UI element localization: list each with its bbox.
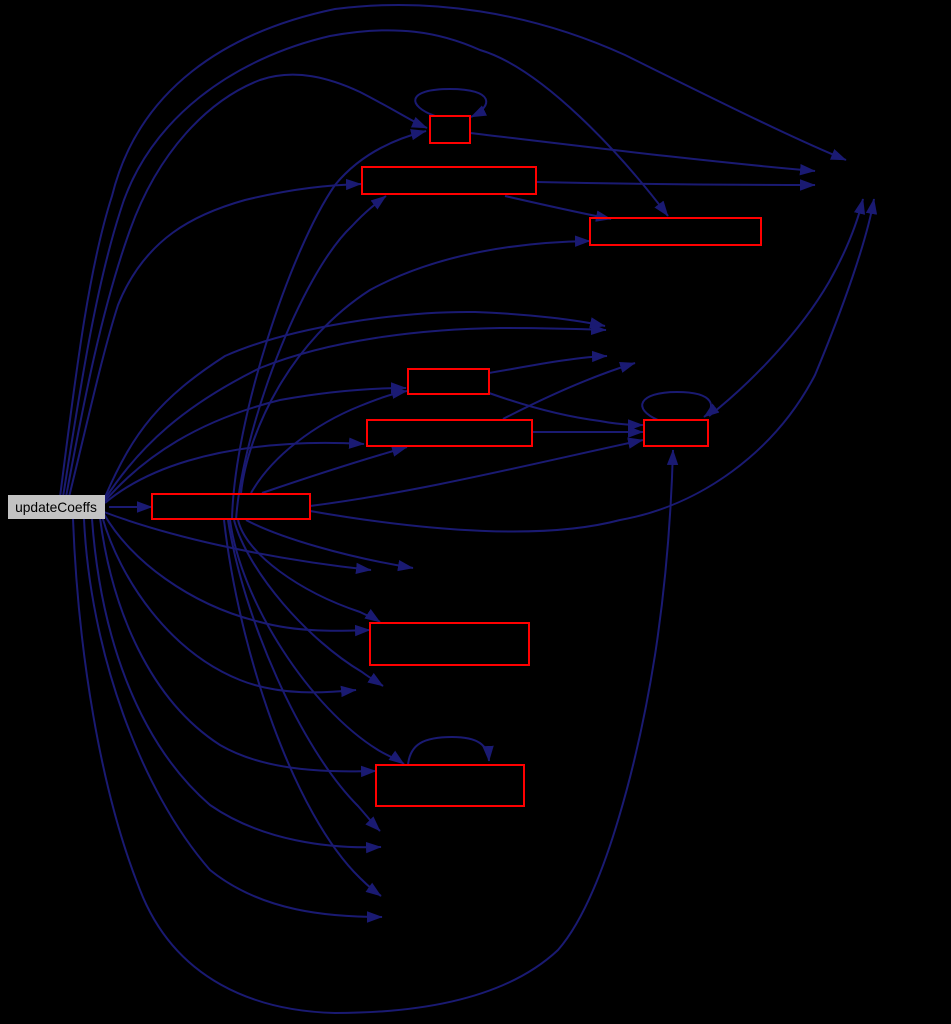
svg-text:updateCoeffs: updateCoeffs xyxy=(15,500,97,515)
